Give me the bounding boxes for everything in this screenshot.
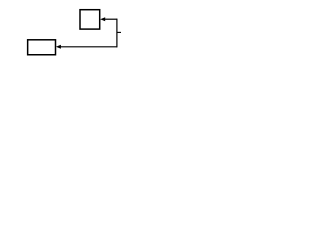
wire: vertical segment (116, 19, 118, 48)
box B1 (top square) (80, 10, 100, 29)
box B2 (bottom rectangle) (28, 40, 56, 55)
arrowhead into bottom box (56, 45, 61, 49)
wire: horizontal segment into top box (105, 18, 117, 20)
arrowhead into top box (100, 17, 105, 21)
wire: horizontal segment into bottom box (60, 46, 117, 48)
midpoint tick on vertical wire (117, 31, 121, 33)
